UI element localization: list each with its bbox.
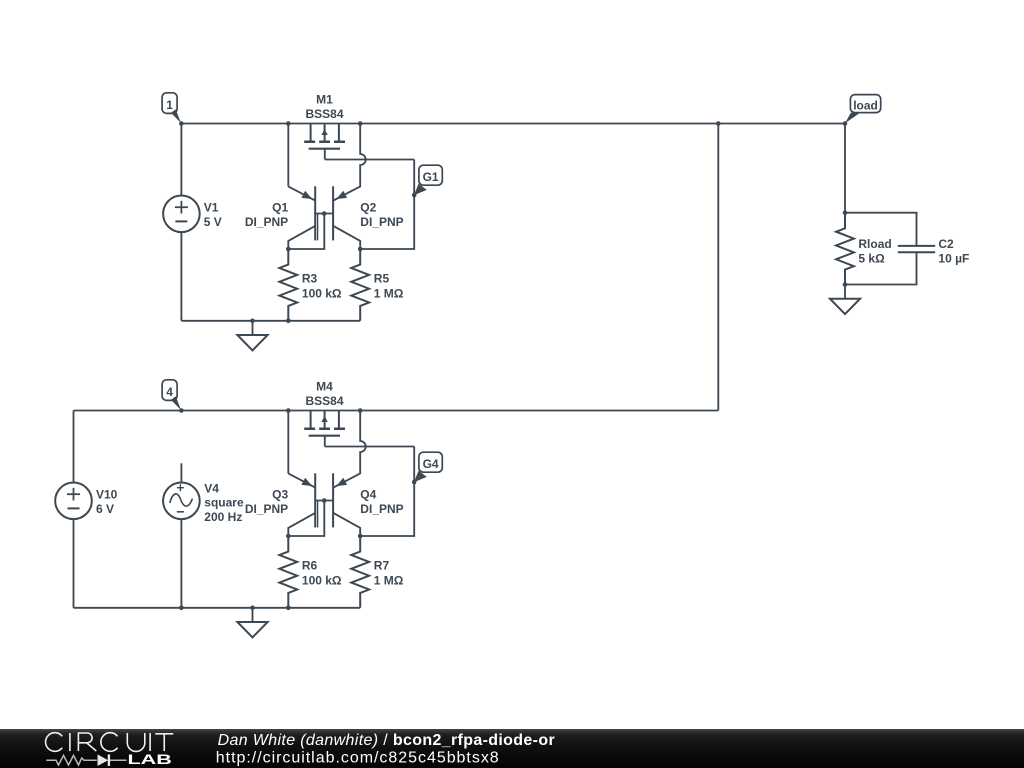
svg-text:5 V: 5 V: [204, 215, 222, 229]
svg-text:V10: V10: [96, 488, 118, 502]
svg-text:4: 4: [166, 385, 173, 399]
svg-text:http://circuitlab.com/c825c45b: http://circuitlab.com/c825c45bbtsx8: [216, 750, 500, 767]
ground: [237, 321, 267, 351]
transistor M4 PMOS: [304, 411, 345, 447]
transistor Q4 emitter wire with hop: [333, 411, 366, 488]
transistor Q2 emitter wire with hop: [333, 124, 366, 201]
wire bottom rail2 left: [74, 607, 182, 609]
label V10: [96, 488, 118, 516]
svg-text:100 kΩ: 100 kΩ: [302, 573, 342, 587]
svg-text:6 V: 6 V: [96, 502, 114, 516]
wire gate horizontal: [325, 446, 414, 448]
svg-text:DI_PNP: DI_PNP: [360, 215, 403, 229]
label Q3: [245, 488, 289, 516]
wire C2 top: [845, 213, 917, 246]
svg-text:G1: G1: [423, 170, 439, 184]
wire base lead down: [288, 214, 324, 250]
node rail right: [358, 121, 363, 126]
label C2: [938, 237, 969, 266]
footer bar: [0, 729, 1024, 768]
svg-text:5 kΩ: 5 kΩ: [858, 251, 885, 265]
node base junction: [322, 498, 327, 503]
svg-text:square: square: [204, 496, 244, 510]
svg-text:V4: V4: [204, 481, 219, 495]
svg-text:1 MΩ: 1 MΩ: [374, 286, 404, 300]
node G1 attach: [412, 193, 417, 198]
transistor M1 PMOS: [304, 124, 345, 160]
transistor Q4 collector wire: [333, 513, 360, 536]
svg-text:R7: R7: [374, 559, 390, 573]
node Rload bottom: [843, 282, 848, 287]
node collector right: [358, 247, 363, 252]
flag node 4: [162, 380, 181, 410]
svg-text:C2: C2: [938, 237, 954, 251]
wire top rail segment: [288, 123, 360, 125]
wire top rail segment: [181, 123, 288, 125]
label R5: [374, 272, 404, 301]
wire V10 top: [73, 411, 75, 483]
node base junction: [322, 211, 327, 216]
svg-text:G4: G4: [423, 457, 439, 471]
transistor Q1 emitter wire: [288, 124, 315, 201]
svg-text:DI_PNP: DI_PNP: [360, 502, 403, 516]
flag load: [845, 95, 881, 124]
transistor Q3 base bar: [314, 473, 316, 527]
node load attach: [843, 121, 848, 126]
svg-text:100 kΩ: 100 kΩ: [302, 286, 342, 300]
node interconnect junction: [716, 121, 721, 126]
label R3: [302, 272, 342, 301]
wire C2 bottom: [845, 252, 917, 284]
svg-text:R6: R6: [302, 559, 318, 573]
label M4: [305, 380, 343, 408]
wire gate horizontal: [325, 159, 414, 161]
node 1 attach: [179, 121, 184, 126]
svg-text:1 MΩ: 1 MΩ: [374, 573, 404, 587]
node 4 attach: [179, 408, 184, 413]
svg-text:1: 1: [166, 98, 173, 112]
wire V4 top stub: [180, 463, 182, 482]
label Q1: [245, 201, 289, 229]
label Q4: [360, 488, 403, 516]
base tie wire: [315, 500, 333, 502]
transistor Q1 collector wire: [288, 226, 315, 249]
flag G1: [414, 165, 442, 195]
resistor R7: [351, 536, 369, 608]
wire base lead down: [288, 501, 324, 537]
resistor Rload: [836, 213, 854, 285]
logo resistor-diode art: [46, 755, 97, 765]
svg-text:Q4: Q4: [360, 488, 376, 502]
svg-text:R3: R3: [302, 272, 318, 286]
svg-text:DI_PNP: DI_PNP: [245, 215, 288, 229]
node R3 junction: [286, 319, 291, 324]
label V4: [204, 481, 244, 524]
transistor Q3 collector wire: [288, 513, 315, 536]
capacitor C2: [898, 246, 935, 252]
wire top rail segment: [288, 410, 360, 412]
transistor Q1 base bar: [314, 186, 316, 240]
voltage source V10: [55, 483, 92, 520]
svg-text:BSS84: BSS84: [305, 394, 343, 408]
node rail left: [286, 408, 291, 413]
wire V10 bottom: [73, 519, 75, 608]
wire bottom rail: [181, 320, 360, 322]
node ground junction: [250, 319, 255, 324]
wire rail2 left: [74, 410, 182, 412]
flag node 1: [162, 93, 181, 123]
svg-text:M4: M4: [316, 380, 333, 394]
svg-text:LAB: LAB: [128, 752, 172, 767]
node collector left: [286, 247, 291, 252]
label Rload: [858, 237, 891, 266]
wire V1 top: [180, 124, 182, 196]
flag G4: [414, 452, 442, 482]
svg-text:BSS84: BSS84: [305, 107, 343, 121]
svg-text:Q1: Q1: [272, 201, 288, 215]
wire top rail segment: [181, 410, 288, 412]
wire interconnect vertical: [717, 124, 719, 411]
ground load: [830, 285, 860, 315]
svg-text:M1: M1: [316, 93, 333, 107]
node collector right: [358, 534, 363, 539]
resistor R5: [351, 249, 369, 321]
wire V4 bottom: [180, 519, 182, 608]
svg-text:Q2: Q2: [360, 201, 376, 215]
label V1: [204, 201, 222, 229]
label Q2: [360, 201, 403, 229]
CircuitLab logo CIRCUIT: [46, 733, 63, 752]
svg-text:V1: V1: [204, 201, 219, 215]
wire rail2 right: [360, 410, 718, 412]
transistor Q2 base bar: [332, 186, 334, 240]
node ground junction: [250, 606, 255, 611]
svg-text:Q3: Q3: [272, 488, 288, 502]
svg-text:R5: R5: [374, 272, 390, 286]
voltage source V1: [163, 196, 200, 233]
node G4 attach: [412, 480, 417, 485]
wire load vertical: [844, 124, 846, 213]
wire top rail to load: [360, 123, 845, 125]
label R6: [302, 559, 342, 588]
svg-text:load: load: [853, 98, 878, 112]
resistor R6: [279, 536, 297, 608]
wire G vertical: [360, 447, 414, 537]
voltage source V4: [163, 483, 200, 520]
node collector left: [286, 534, 291, 539]
wire bottom rail: [181, 607, 360, 609]
label R7: [374, 559, 404, 588]
base tie wire: [315, 213, 333, 215]
inner base lead: [317, 501, 319, 528]
wire V1 bottom: [180, 232, 182, 321]
svg-text:Dan White (danwhite) / bcon2_r: Dan White (danwhite) / bcon2_rfpa-diode-…: [218, 732, 555, 749]
transistor Q2 collector wire: [333, 226, 360, 249]
node Rload top: [843, 210, 848, 215]
label M1: [305, 93, 343, 121]
ground: [237, 608, 267, 638]
node rail right: [358, 408, 363, 413]
transistor Q3 emitter wire: [288, 411, 315, 488]
resistor R3: [279, 249, 297, 321]
node R6 junction: [286, 606, 291, 611]
svg-text:200 Hz: 200 Hz: [204, 510, 242, 524]
node V4 bottom junction: [179, 606, 184, 611]
wire G vertical: [360, 160, 414, 250]
svg-text:Rload: Rload: [858, 237, 891, 251]
svg-text:10 µF: 10 µF: [938, 251, 969, 265]
node rail left: [286, 121, 291, 126]
transistor Q4 base bar: [332, 473, 334, 527]
inner base lead: [317, 214, 319, 241]
svg-text:DI_PNP: DI_PNP: [245, 502, 288, 516]
